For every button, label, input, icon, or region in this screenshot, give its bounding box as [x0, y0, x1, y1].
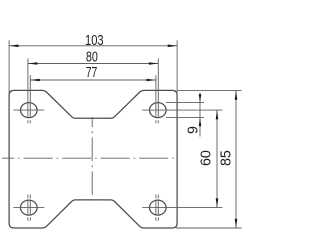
arrow 60 top	[216, 110, 219, 119]
dim line 60	[216, 110, 218, 208]
crosshair bottom-right hole + ref for 60 dim	[142, 207, 222, 209]
extension line x=27.9 for dim 80 through left holes	[27, 58, 29, 220]
arrow 85 top	[235, 90, 238, 99]
arrow 9 lower outside	[199, 118, 202, 127]
plate outline	[9, 90, 177, 228]
svg-text:60: 60	[198, 150, 214, 166]
arrow 85 bottom	[235, 219, 238, 228]
crosshair top-right hole + ref for 60 dim	[142, 109, 222, 111]
extension line x=9.1 for dim 103	[8, 40, 10, 95]
hole bottom-left	[21, 200, 38, 215]
hole top-right	[150, 103, 167, 118]
hole top-left	[21, 103, 38, 118]
arrow 77 right	[147, 79, 156, 82]
arrow 80 right	[149, 62, 158, 65]
dim line 103	[9, 45, 177, 47]
svg-text:85: 85	[219, 150, 235, 166]
arrow 103 right	[168, 45, 177, 48]
dim line 77	[30, 79, 156, 81]
svg-text:9: 9	[186, 126, 202, 134]
svg-text:80: 80	[86, 50, 98, 66]
centerline vertical	[91, 117, 93, 201]
dim line 9	[199, 93, 201, 137]
ref line plate top for dim 85	[177, 89, 241, 91]
crosshair top-left hole	[13, 109, 44, 111]
svg-text:77: 77	[86, 65, 98, 81]
arrow 77 left	[30, 79, 39, 82]
ref line hole bottom tangent for dim 9	[166, 117, 204, 119]
arrow 103 left	[9, 45, 18, 48]
hole bottom-right	[150, 200, 167, 215]
crosshair bottom-left hole	[13, 207, 44, 209]
centerline horizontal	[2, 157, 177, 159]
ref line plate bottom for dim 85	[176, 227, 242, 229]
arrow 80 left	[28, 62, 37, 65]
extension line x=158.3 for dim 80 through right holes	[157, 58, 159, 220]
svg-text:103: 103	[85, 33, 104, 49]
dim line 85	[235, 90, 237, 228]
dim line 80	[28, 63, 158, 65]
arrow 60 bottom	[216, 198, 219, 207]
extension line x=155.9 for dim 77 through right holes	[155, 75, 157, 221]
extension line x=30.3 for dim 77 through left holes	[29, 75, 31, 221]
arrow 9 upper outside	[199, 94, 202, 103]
extension line x=177.1 for dim 103	[176, 40, 178, 95]
ref line hole top tangent for dim 9	[166, 102, 204, 104]
